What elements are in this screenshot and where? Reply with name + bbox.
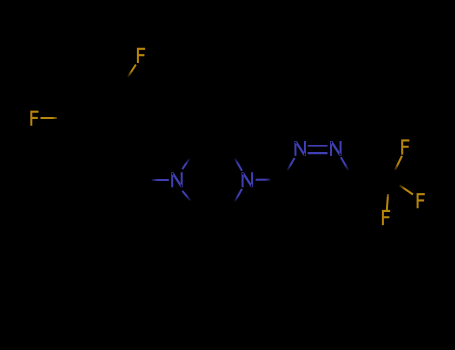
bond N4-C5 piperazine half-blue stub: [235, 189, 242, 201]
bond N1-CH2 half-blue stub: [152, 179, 169, 181]
bond N4-C3' to pyridazine half-blue stub: [256, 179, 270, 181]
piperazine N4 label: [242, 172, 254, 187]
fluorine F2 label (para F of difluorophenyl): [30, 111, 38, 126]
bond N1-C6 piperazine half-blue stub: [182, 191, 192, 203]
bond N4-C3 piperazine half-blue stub: [235, 159, 242, 171]
trifluoromethyl F3 label (top): [401, 139, 409, 154]
pyridazine N1 label: [330, 141, 342, 156]
double bond N1=N2 lower line: [308, 152, 328, 154]
bond N1-C6' pyridazine half-blue stub: [341, 157, 349, 170]
bond N1-C2 piperazine half-blue stub: [182, 159, 189, 169]
bond N2-C3' pyridazine half-blue stub: [286, 158, 295, 173]
double bond N1=N2 upper line: [308, 145, 328, 147]
bond F2-C4 half-gold stub: [41, 117, 58, 119]
piperazine N1 label: [171, 172, 183, 187]
trifluoromethyl F5 label (bottom): [382, 210, 390, 225]
trifluoromethyl F4 label (right): [417, 193, 425, 208]
bond F3-C(CF3) half-gold stub: [395, 156, 402, 170]
fluorine F1 label (ortho F of difluorophenyl): [137, 48, 145, 63]
bond F1-C2 half-gold stub: [128, 65, 136, 78]
pyridazine N2 label: [294, 141, 306, 156]
bond F4-C(CF3) half-gold stub: [400, 185, 414, 194]
bond F5-C(CF3) half-gold stub: [387, 194, 388, 211]
